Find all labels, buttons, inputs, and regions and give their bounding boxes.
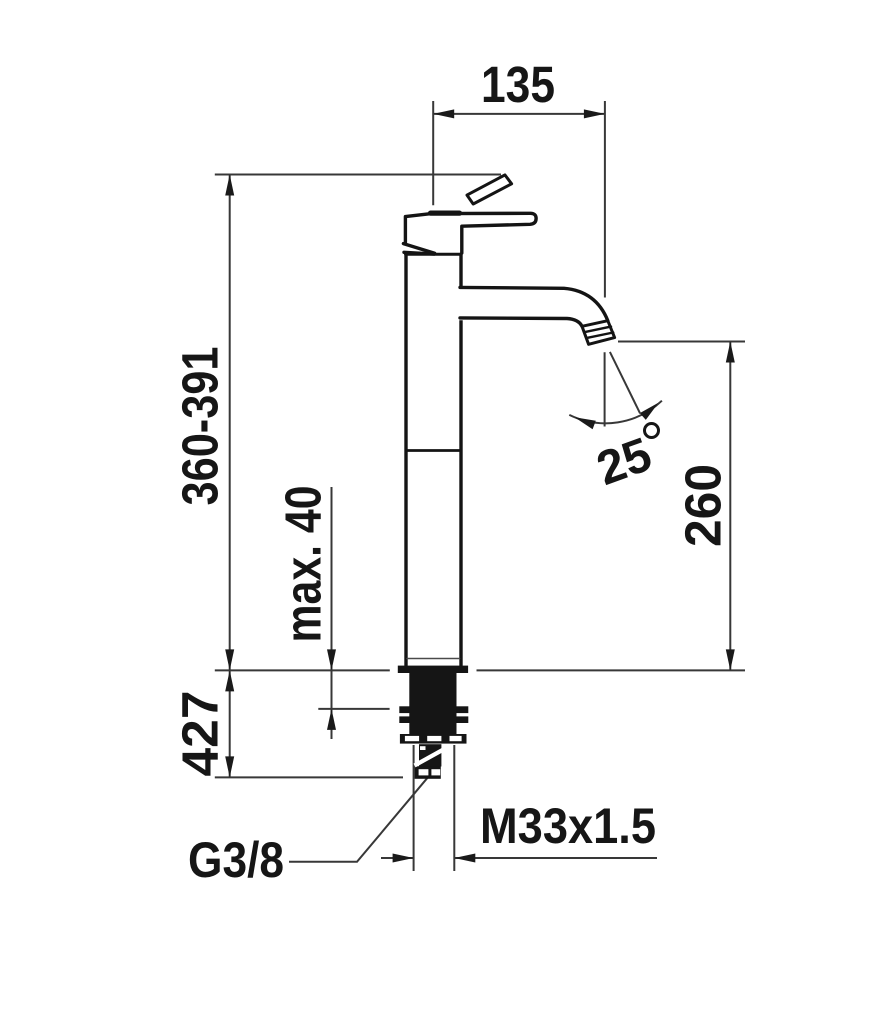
mounting nut white dash 2 — [427, 736, 441, 741]
node arrow up 360-391 top — [225, 175, 234, 196]
mounting nut white dash 3 — [450, 736, 462, 741]
handle lever knob — [467, 175, 512, 204]
svg-text:135: 135 — [481, 56, 555, 113]
wire bottom reference line 427 — [215, 776, 403, 778]
body neck top line — [406, 253, 461, 256]
svg-text:360-391: 360-391 — [172, 347, 229, 506]
shank tab left lower — [399, 716, 409, 723]
spout aerator band — [582, 321, 615, 345]
hose end nut white dash 1 — [419, 769, 429, 775]
spout aerator inner line 2 — [586, 333, 613, 339]
node arrow up 427 top — [225, 670, 234, 691]
shank tab right lower — [456, 716, 468, 723]
shank tab left upper — [399, 706, 409, 713]
node arrow up 260 top — [726, 342, 735, 363]
hose end nut — [415, 766, 441, 779]
svg-text:max. 40: max. 40 — [275, 486, 332, 643]
spout aerator inner line 1 — [584, 327, 611, 333]
node arrow left M33 — [454, 854, 475, 863]
wire leader line G3/8 — [289, 777, 428, 862]
wire extension line right of 135 — [604, 101, 606, 298]
shank tab right upper — [456, 706, 468, 713]
spout white infill — [459, 286, 617, 346]
label degree circle of 25 — [645, 424, 659, 438]
body top slant line — [404, 252, 434, 254]
spout bottom edge — [460, 318, 582, 326]
wire dimension line 260 — [729, 342, 731, 671]
node arrow down 260 bottom — [726, 649, 735, 670]
node arrow left of 135 — [433, 109, 454, 118]
wire dimension line M33 left segment — [381, 857, 414, 859]
wire extension line M33 left — [413, 745, 415, 871]
node arrow arc left 25 deg — [575, 417, 596, 429]
body bottom joint line — [407, 658, 460, 660]
hose connector white notch — [420, 746, 426, 750]
wire dimension line M33 right segment — [454, 857, 657, 859]
body joint line — [407, 449, 461, 452]
wire angle ray slanted 25 deg — [610, 352, 640, 414]
node arrow arc right 25 deg — [640, 403, 659, 420]
hose connector white stripe — [415, 750, 443, 766]
handle bottom slant line — [403, 244, 434, 254]
hose end nut white dash 2 — [431, 769, 440, 775]
handle lever arm and cap outline — [405, 213, 536, 253]
body column right edge — [459, 254, 462, 665]
wire top reference line (handle top level) — [215, 174, 501, 176]
wire base plane line left — [215, 669, 390, 671]
svg-text:427: 427 — [172, 691, 229, 777]
wire extension line spout level 260 — [618, 341, 745, 343]
wire lower reference line max 40 — [318, 708, 389, 710]
hose connector — [419, 744, 441, 766]
svg-text:G3/8: G3/8 — [188, 832, 284, 888]
threaded shank — [409, 672, 456, 734]
wire base plane line right — [477, 669, 746, 671]
wire angle arc 25 deg — [569, 401, 662, 424]
faucet body group — [403, 175, 616, 666]
node arrow down 427 bottom — [225, 756, 234, 777]
body column left edge — [404, 254, 407, 665]
mounting nut white dash 1 — [405, 736, 419, 741]
node arrow right of 135 — [584, 109, 605, 118]
node arrow down max40 at base plane — [327, 649, 336, 670]
svg-text:M33x1.5: M33x1.5 — [480, 798, 656, 854]
wire dimension line 135 — [433, 113, 605, 115]
svg-text:260: 260 — [675, 464, 732, 547]
spout top edge — [460, 287, 608, 320]
node arrow down 360-391 bottom — [225, 649, 234, 670]
node arrow right M33 — [393, 854, 414, 863]
wire dimension line 360-391 / 427 vertical — [229, 175, 231, 778]
base flange — [398, 666, 468, 673]
mounting nut dashed — [400, 734, 467, 744]
wire angle ray vertical 25 deg — [604, 352, 606, 426]
wire dimension line max 40 — [331, 487, 333, 739]
node arrow up max40 at lower line — [327, 709, 336, 730]
handle pivot thick segment — [431, 211, 460, 216]
wire extension line left of 135 — [432, 101, 434, 205]
wire extension line M33 right — [453, 745, 455, 871]
